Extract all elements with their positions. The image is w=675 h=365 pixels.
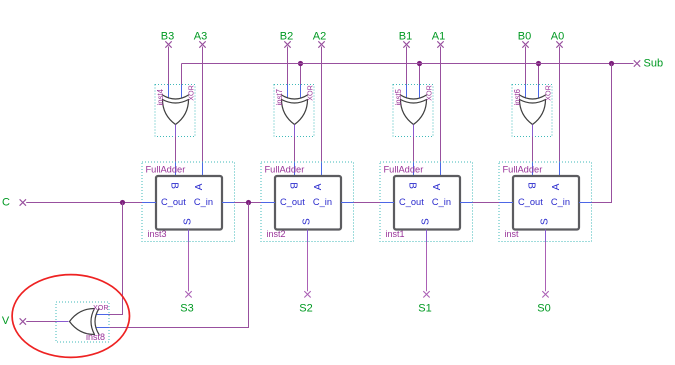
svg-text:B: B	[168, 182, 179, 189]
input pin A3	[194, 31, 207, 48]
wire carry chain	[235, 202, 262, 204]
svg-text:S0: S0	[537, 302, 550, 314]
input pin A0	[551, 31, 564, 48]
svg-text:C_out: C_out	[161, 197, 186, 207]
full adder inst	[499, 162, 592, 242]
wire carry chain	[473, 202, 500, 204]
output pin S0	[537, 291, 550, 314]
wire XOR inst5 output to FullAdder inst1 port B	[413, 137, 415, 177]
svg-text:B: B	[406, 182, 417, 189]
junction Sub to C_in drop	[609, 61, 614, 66]
xor gate inst6	[512, 85, 553, 137]
wire FullAdder inst S to output pin S0	[545, 242, 547, 292]
wire Sub drop to XOR inst5	[419, 64, 421, 85]
svg-text:A: A	[313, 183, 324, 190]
wire Sub drop to XOR inst6	[538, 64, 540, 85]
input pin B3	[161, 31, 174, 48]
svg-text:A: A	[194, 183, 205, 190]
svg-text:S: S	[421, 218, 432, 225]
junction on Sub line	[417, 61, 422, 66]
wire FullAdder inst2 S to output pin S2	[307, 242, 309, 292]
output pin S3	[180, 291, 193, 314]
svg-text:XOR: XOR	[544, 85, 553, 101]
svg-text:A0: A0	[551, 31, 564, 43]
junction on Sub line	[536, 61, 541, 66]
svg-text:A: A	[432, 183, 443, 190]
input pin Sub	[634, 58, 663, 70]
svg-text:C_in: C_in	[551, 197, 570, 207]
wire A1 to FullAdder inst1 port A	[440, 47, 442, 177]
svg-text:S1: S1	[418, 302, 431, 314]
wire B2 to XOR inst7	[287, 47, 289, 85]
wire FullAdder inst3 S to output pin S3	[188, 242, 190, 292]
wire XOR inst4 output to FullAdder inst3 port B	[175, 137, 177, 177]
svg-text:C_in: C_in	[194, 197, 213, 207]
svg-text:B: B	[287, 182, 298, 189]
svg-text:inst6: inst6	[513, 89, 522, 105]
svg-text:inst7: inst7	[275, 89, 284, 105]
wire FullAdder inst1 S to output pin S1	[426, 242, 428, 292]
svg-text:V: V	[2, 315, 10, 327]
svg-text:B1: B1	[399, 31, 412, 43]
svg-text:FullAdder: FullAdder	[503, 165, 543, 175]
svg-text:B: B	[525, 182, 536, 189]
svg-text:C_in: C_in	[432, 197, 451, 207]
svg-text:B2: B2	[280, 31, 293, 43]
svg-text:FullAdder: FullAdder	[146, 165, 186, 175]
svg-text:A: A	[551, 183, 562, 190]
wire B3 to XOR inst4	[168, 47, 170, 85]
input pin A1	[432, 31, 445, 48]
wire carry junction down to xor inst8 input	[108, 203, 249, 328]
svg-text:S3: S3	[180, 302, 193, 314]
xor gate inst8	[56, 302, 109, 342]
wire xor inst8 output to pin V	[26, 321, 56, 323]
svg-text:S: S	[183, 218, 194, 225]
output pin C	[2, 197, 26, 209]
svg-text:Sub: Sub	[644, 58, 664, 70]
wire C net down to xor inst8 input	[108, 203, 123, 315]
svg-text:C_out: C_out	[399, 197, 424, 207]
wire Sub horizontal net	[182, 63, 634, 65]
wire Sub drop to XOR inst7	[300, 64, 302, 85]
svg-text:S: S	[302, 218, 313, 225]
svg-text:C_in: C_in	[313, 197, 332, 207]
wire B1 to XOR inst5	[406, 47, 408, 85]
svg-text:C: C	[2, 197, 10, 209]
xor gate inst7	[274, 85, 315, 137]
svg-text:C_out: C_out	[518, 197, 543, 207]
svg-text:FullAdder: FullAdder	[265, 165, 305, 175]
wire C_out inst3 to pin C	[26, 202, 142, 204]
junction C net to overflow xor	[120, 200, 125, 205]
svg-text:XOR: XOR	[187, 85, 196, 101]
wire XOR inst7 output to FullAdder inst2 port B	[294, 137, 296, 177]
full adder inst2	[261, 162, 354, 242]
svg-text:B3: B3	[161, 31, 174, 43]
full adder inst3	[142, 162, 235, 242]
svg-text:S: S	[540, 218, 551, 225]
svg-text:inst5: inst5	[394, 88, 403, 105]
xor gate inst4	[155, 85, 196, 137]
svg-text:XOR: XOR	[425, 85, 434, 101]
svg-text:XOR: XOR	[93, 303, 109, 312]
wire A3 to FullAdder inst3 port A	[202, 47, 204, 177]
svg-text:inst4: inst4	[156, 88, 165, 105]
svg-text:inst8: inst8	[86, 332, 105, 342]
output pin S1	[418, 291, 431, 314]
svg-text:A2: A2	[313, 31, 326, 43]
input pin B0	[518, 31, 531, 48]
wire XOR inst6 output to FullAdder inst port B	[532, 137, 534, 177]
full adder inst1	[380, 162, 473, 242]
wire Sub drop to XOR inst4	[181, 64, 183, 85]
wire A2 to FullAdder inst2 port A	[321, 47, 323, 177]
input pin B1	[399, 31, 412, 48]
svg-text:S2: S2	[299, 302, 312, 314]
svg-text:FullAdder: FullAdder	[384, 165, 424, 175]
svg-text:XOR: XOR	[306, 85, 315, 101]
xor gate inst5	[393, 85, 434, 137]
svg-text:A1: A1	[432, 31, 445, 43]
svg-text:B0: B0	[518, 31, 531, 43]
output pin V	[2, 315, 26, 327]
input pin B2	[280, 31, 293, 48]
wire carry chain	[354, 202, 381, 204]
wire B0 to XOR inst6	[525, 47, 527, 85]
junction on Sub line	[298, 61, 303, 66]
junction carry to overflow xor	[246, 200, 251, 205]
svg-text:C_out: C_out	[280, 197, 305, 207]
output pin S2	[299, 291, 312, 314]
svg-text:A3: A3	[194, 31, 207, 43]
input pin A2	[313, 31, 326, 48]
wire Sub to FullAdder inst C_in	[592, 64, 612, 203]
annotation red ellipse	[12, 275, 129, 358]
wire A0 to FullAdder inst port A	[559, 47, 561, 177]
